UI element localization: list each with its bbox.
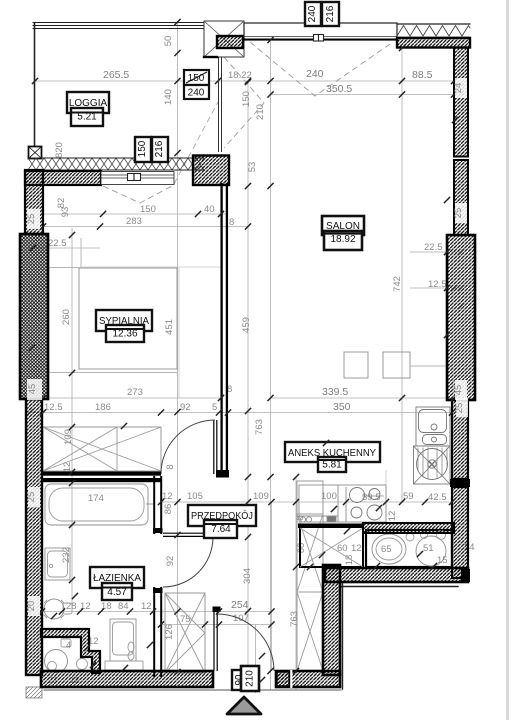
dim line 22.5 left [28, 247, 100, 249]
svg-text:88.5: 88.5 [412, 69, 433, 81]
svg-text:84: 84 [118, 601, 129, 612]
room label SYPIALNIA [96, 310, 152, 342]
svg-text:150: 150 [241, 91, 252, 107]
shower step wall [41, 629, 100, 673]
bed left step line [48, 238, 81, 268]
bed foot line [48, 372, 177, 374]
step vertical wall bottom-right [323, 565, 340, 675]
loggia floor edge insulation zigzag band [28, 158, 204, 170]
svg-text:45: 45 [27, 384, 38, 395]
svg-text:240: 240 [307, 5, 318, 22]
room label ANEKS KUCHENNY [285, 442, 380, 472]
bathroom east wall upper [153, 477, 163, 533]
entrance door frame cap [213, 607, 221, 613]
left exterior wall lower segment [26, 399, 42, 675]
right wall black tooth [450, 479, 470, 487]
kitchen tall cabinet column [297, 481, 323, 671]
dashed swing loggia door [103, 186, 172, 203]
bed in bedroom [79, 268, 177, 369]
svg-text:53: 53 [247, 162, 258, 173]
top pillar block at salon window left [204, 21, 244, 57]
dim line row 12/105/109/100/39.5/59/42.5 [161, 501, 452, 503]
svg-text:25: 25 [454, 403, 465, 414]
svg-text:12.5: 12.5 [428, 279, 447, 290]
svg-text:75: 75 [180, 614, 191, 625]
svg-text:186: 186 [95, 402, 111, 413]
kitchen stove crossed w circle [414, 446, 451, 484]
washing machine [110, 619, 136, 661]
v dim line x296 [295, 477, 297, 689]
svg-text:4.57: 4.57 [107, 587, 127, 598]
scan edge line right [506, 0, 509, 720]
svg-text:109: 109 [253, 491, 269, 502]
room label SALON [322, 216, 364, 250]
entrance arrow triangle [227, 697, 261, 714]
hob burners [350, 488, 383, 521]
svg-text:260: 260 [61, 309, 72, 325]
svg-text:SYPIALNIA: SYPIALNIA [99, 316, 149, 327]
top-right insulation zigzag band [397, 24, 470, 37]
svg-text:265.5: 265.5 [103, 69, 129, 81]
svg-text:150: 150 [137, 140, 148, 157]
svg-text:22.5: 22.5 [424, 242, 443, 253]
bottom-right wall inner edge line [340, 586, 458, 588]
shower tray circles [45, 650, 88, 673]
v dim line x402 [401, 48, 403, 502]
kitchen ext line x386 [385, 470, 387, 520]
v dim line x72 [71, 228, 73, 611]
wall thickness labels over hatch [26, 209, 40, 229]
salon table squares [344, 352, 368, 378]
right wall lower [452, 487, 468, 578]
entrance door arc [217, 614, 274, 671]
svg-text:12: 12 [351, 543, 362, 554]
dashed window swing salon north [250, 42, 393, 96]
bathroom east wall lower [153, 588, 163, 676]
left wall bottom stub light hatch [26, 687, 42, 698]
svg-text:451: 451 [164, 319, 175, 335]
svg-text:60: 60 [296, 543, 307, 554]
bedroom door arc [161, 420, 215, 474]
dim line 339.5 [270, 397, 454, 399]
right exterior wall upper [454, 48, 468, 157]
svg-text:763: 763 [289, 611, 300, 627]
svg-text:92: 92 [180, 402, 191, 413]
neighbor room fixtures box [366, 530, 452, 567]
svg-text:150: 150 [140, 204, 156, 215]
svg-text:12: 12 [387, 511, 398, 522]
right wall wide pillar [447, 235, 475, 400]
texts horizontal [44, 68, 475, 685]
partition door jamb stub [216, 470, 229, 478]
svg-text:50: 50 [163, 36, 174, 47]
bottom wall end cap at door [277, 672, 290, 687]
svg-text:105: 105 [187, 491, 203, 502]
svg-text:92: 92 [165, 556, 176, 567]
entrance door label 90/210 [232, 666, 259, 691]
salon west window glazing [219, 55, 222, 152]
dim line 350.5 [270, 94, 454, 96]
svg-text:5.81: 5.81 [322, 460, 342, 471]
top-right exterior wall band (hatched) [397, 38, 470, 48]
svg-text:12: 12 [141, 601, 152, 612]
svg-text:86: 86 [163, 504, 174, 515]
lower-left kitchen cabinet crossed [298, 524, 363, 568]
bathtub [45, 484, 155, 525]
svg-text:216: 216 [154, 140, 165, 157]
hall wardrobe crossed [165, 593, 205, 673]
svg-text:5.21: 5.21 [77, 112, 97, 123]
bottom-right exterior wall band [325, 568, 468, 582]
svg-text:8: 8 [229, 217, 234, 228]
left exterior wall upper segment [25, 170, 43, 234]
right wall below pillar [452, 400, 468, 479]
svg-text:12.5: 12.5 [44, 402, 63, 413]
svg-text:12.36: 12.36 [112, 329, 137, 340]
svg-text:216: 216 [325, 5, 336, 22]
bottom-right wall end cap [461, 569, 470, 582]
step wall inner edge line [342, 584, 344, 689]
v ext line x81 bed step [80, 238, 82, 268]
svg-text:763: 763 [254, 419, 265, 435]
dashed window swing salon west [224, 57, 264, 148]
svg-text:ŁAZIENKA: ŁAZIENKA [93, 573, 141, 584]
svg-text:51: 51 [423, 543, 434, 554]
room label LOGGIA [67, 92, 109, 126]
bathroom door arc [163, 537, 213, 587]
dim line 12.5 right [410, 287, 461, 289]
toilet [44, 599, 72, 619]
svg-text:339.5: 339.5 [322, 386, 348, 398]
partition bedroom/salon [222, 184, 227, 470]
svg-text:65: 65 [381, 544, 392, 555]
kitchen counter row [299, 485, 386, 522]
svg-text:25: 25 [26, 492, 37, 503]
north wall west segment (hatched) [25, 171, 101, 185]
svg-text:22.5: 22.5 [48, 238, 67, 249]
dim line row 12.5/186/92/5/350 [28, 412, 452, 414]
svg-text:42.5: 42.5 [428, 492, 447, 503]
loggia corner post [29, 147, 42, 159]
svg-text:20: 20 [26, 601, 37, 612]
svg-text:8: 8 [165, 464, 176, 469]
svg-text:18.92: 18.92 [330, 234, 355, 245]
svg-text:350.5: 350.5 [326, 83, 352, 95]
salon counter line [410, 365, 452, 367]
kitchen sink unit [416, 407, 450, 446]
svg-text:25: 25 [26, 214, 37, 225]
svg-text:ANEKS KUCHENNY: ANEKS KUCHENNY [288, 448, 376, 459]
svg-text:304: 304 [242, 568, 253, 584]
dim line 150/40 [43, 213, 228, 215]
bottom wall inner line [44, 689, 341, 691]
loggia parapet left line [34, 23, 36, 148]
room label PRZEDPOKOJ [188, 505, 256, 538]
dim line 22.5 right [410, 251, 461, 253]
svg-text:5: 5 [212, 402, 217, 413]
bedroom wardrobe crossed [43, 427, 161, 471]
svg-text:240: 240 [306, 68, 324, 80]
bathroom door leaf [163, 533, 213, 536]
svg-text:742: 742 [392, 276, 403, 292]
svg-text:126: 126 [164, 624, 175, 640]
svg-text:459: 459 [241, 317, 252, 333]
window label 150/240 top-left of salon window [184, 70, 209, 99]
svg-text:45: 45 [453, 385, 464, 396]
bottom wall right of entrance [276, 671, 340, 687]
texts rotated [56, 36, 403, 640]
v dim line x270 [270, 40, 272, 690]
svg-text:273: 273 [127, 387, 143, 398]
dim line 265.5 / 18.22 / 88.5 [35, 80, 454, 82]
left exterior wall mid segment (thick) [20, 234, 48, 399]
v dim line x255 entrance [255, 624, 257, 693]
kitchen ext line x271 [271, 502, 273, 671]
v ext line x179 [178, 267, 180, 398]
svg-text:25: 25 [453, 208, 464, 219]
svg-text:350: 350 [333, 401, 351, 413]
svg-text:82: 82 [56, 198, 67, 209]
right exterior wall upper2 [454, 160, 468, 235]
svg-text:140: 140 [163, 89, 174, 105]
dim line row bathroom 28/12/18/84/12 + 254 [28, 611, 271, 613]
svg-text:283: 283 [126, 216, 142, 227]
v dim line x248 [247, 82, 249, 690]
loggia parapet top triple line [33, 23, 203, 29]
north wall corner block bedroom/salon [193, 156, 229, 186]
interior wall band above neighbor room [363, 523, 454, 533]
svg-text:174: 174 [88, 493, 104, 504]
entrance door leaf [214, 611, 217, 671]
svg-text:40: 40 [204, 204, 215, 215]
balcony door in bedroom north wall [101, 172, 174, 185]
bedroom south wall [43, 472, 161, 483]
window label 150/216 left [135, 137, 168, 162]
tick marks (45deg slashes) on dim lines [32, 78, 457, 84]
svg-text:PRZEDPOKÓJ: PRZEDPOKÓJ [191, 509, 253, 522]
svg-text:7.64: 7.64 [211, 524, 231, 535]
bedroom door leaf [214, 420, 217, 474]
bottom wall left of entrance [41, 671, 213, 687]
svg-text:210: 210 [245, 670, 256, 687]
dim line 273 [43, 397, 221, 399]
svg-text:SALON: SALON [326, 221, 360, 232]
h ext line y267 [81, 266, 221, 268]
svg-text:24: 24 [453, 83, 464, 94]
svg-text:93: 93 [60, 207, 71, 218]
floor drain [61, 639, 71, 647]
svg-text:820: 820 [54, 142, 65, 158]
dim line 283 [43, 226, 248, 228]
salon north window [244, 23, 397, 41]
svg-text:LOGGIA: LOGGIA [69, 98, 108, 109]
dashed loggia diagonal [174, 102, 218, 184]
room label LAZIENKA [90, 567, 144, 600]
window label 240/216 top [305, 2, 339, 26]
bathroom washbasin [45, 548, 70, 580]
v dim line x177 [177, 22, 179, 672]
dim line 75/107 [161, 624, 271, 626]
svg-text:254: 254 [231, 599, 249, 611]
svg-text:240: 240 [188, 88, 205, 99]
bathroom low cabinet [105, 661, 143, 670]
